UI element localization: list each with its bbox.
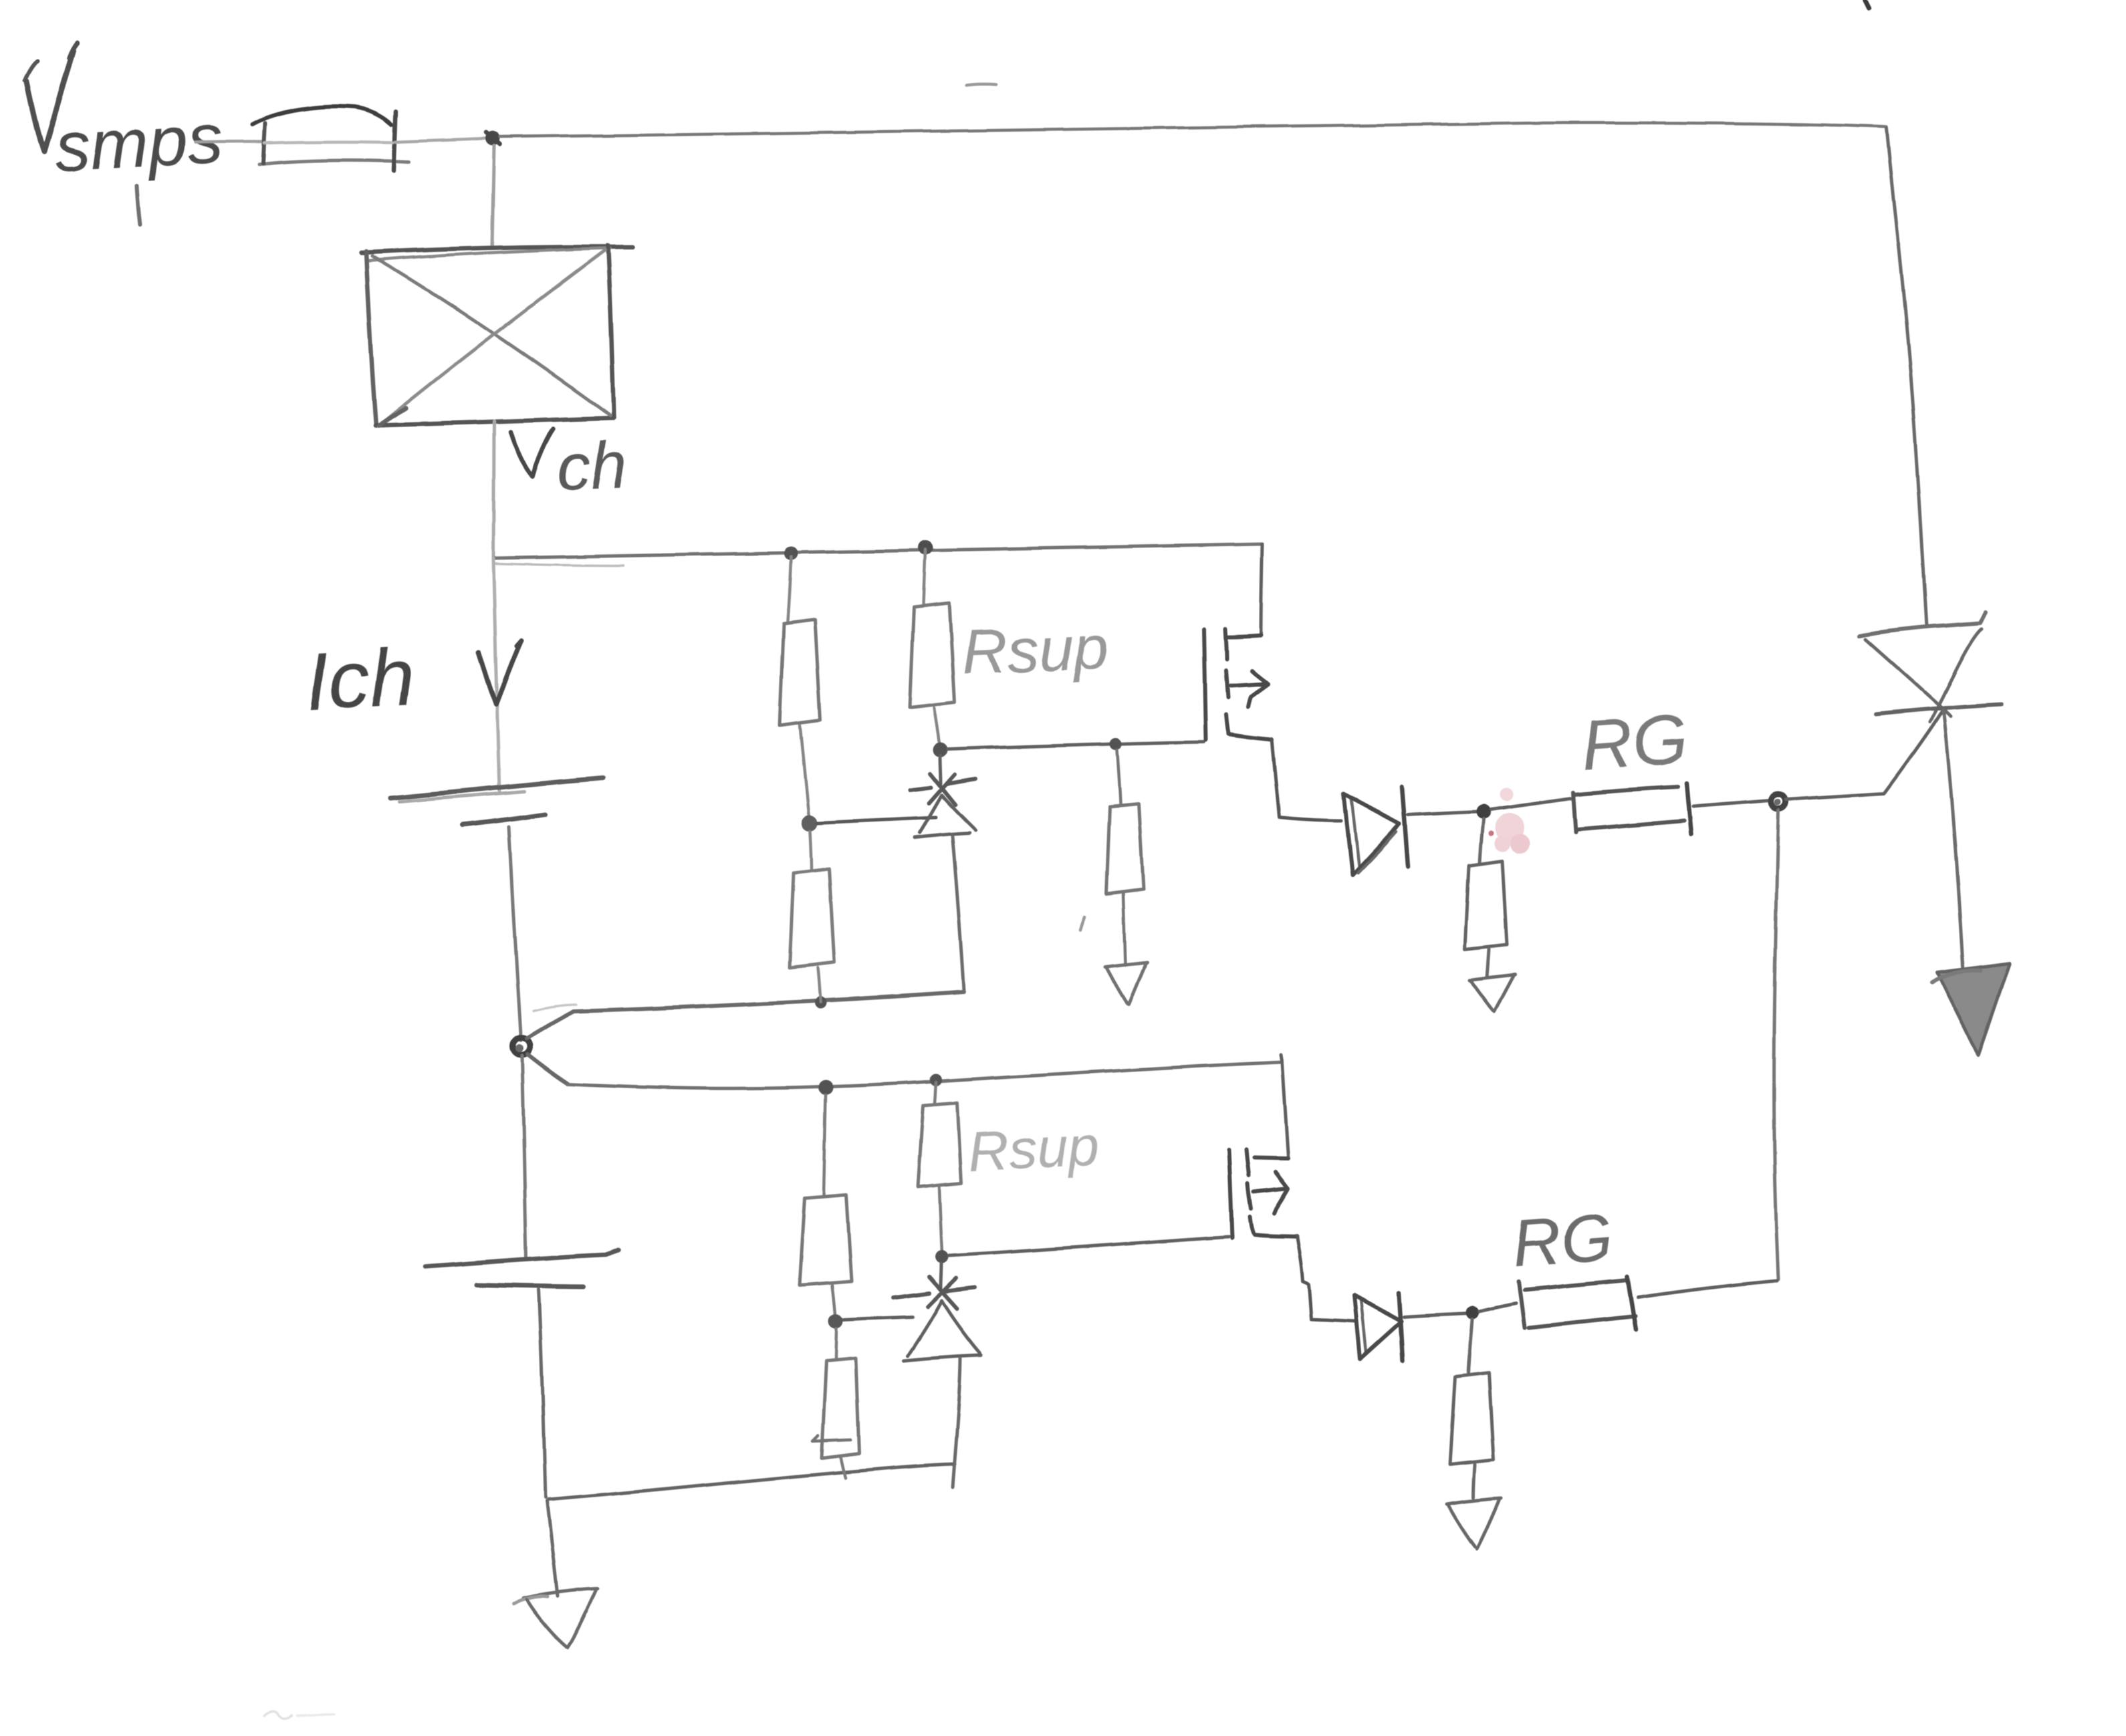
- node B (D1 / R3 / RG1): [1475, 804, 1490, 819]
- ground (below cell1 gate pulldown): [1105, 963, 1147, 1005]
- wire Vsmps to fuse: [195, 142, 262, 142]
- svg-text:Rsup: Rsup: [967, 1114, 1101, 1183]
- fuse F1: [253, 106, 409, 170]
- svg-text:Rsup: Rsup: [961, 612, 1110, 687]
- resistor R2b: [813, 1328, 859, 1477]
- resistor R2a: [800, 1095, 852, 1318]
- resistor RG2: [1480, 1277, 1777, 1330]
- node Rsup2 / zener2 / gate wire: [935, 1250, 949, 1263]
- transistor M2 (MOSFET): [1229, 1150, 1297, 1238]
- node cell1 rail / R1a: [784, 547, 798, 560]
- ground (below R3): [1469, 975, 1515, 1011]
- node Rsup1 / zener1 / gate wire: [933, 743, 947, 757]
- wire rail corner to MOSFET1 drain: [1261, 544, 1262, 635]
- wire charger to cell1 rail: [493, 421, 494, 557]
- wire battery minus to ground: [547, 1501, 558, 1596]
- node battery midpoint: [513, 1037, 530, 1055]
- wire midpoint to cell2 top rail (diagonal): [527, 1054, 568, 1084]
- svg-text:RG: RG: [1510, 1200, 1615, 1281]
- wire top rail: [500, 123, 1887, 137]
- diode D2: [1354, 1293, 1403, 1360]
- stray mark top right corner: [1865, 0, 1869, 8]
- node D (D2 / R4 / RG2): [1466, 1306, 1480, 1320]
- svg-text:Ich: Ich: [304, 631, 417, 727]
- wire cell2 bottom rail: [548, 1464, 955, 1499]
- svg-text:ch: ch: [556, 427, 628, 505]
- node R2a / R2b / zener2: [828, 1314, 843, 1328]
- wire gate (cell1): [947, 742, 1204, 749]
- wire top rail corner down to Q1: [1887, 128, 1927, 627]
- wire cell1 bottom rail: [533, 992, 964, 1011]
- node R1a / zener1 / R1b: [802, 815, 818, 831]
- wire right riser (node C down to RG2): [1774, 810, 1778, 1279]
- resistor R1a: [780, 557, 820, 821]
- node A junction: [485, 131, 500, 146]
- ground (main, below battery): [513, 1589, 598, 1647]
- stray tick near gate wire: [1081, 917, 1085, 931]
- wire fuse to node A: [395, 138, 487, 142]
- node C (RG1 / RG2 riser / Q1 gate): [1771, 794, 1786, 809]
- svg-text:RG: RG: [1578, 699, 1690, 785]
- resistor R3 (pulldown at node B): [1465, 819, 1507, 977]
- diode D1: [1344, 787, 1408, 874]
- wire rail corner down to MOSFET2 drain: [1281, 1055, 1288, 1158]
- wire midpoint to cell1 bottom rail (diagonal): [527, 1011, 574, 1038]
- ground (below R4): [1447, 1498, 1501, 1549]
- battery cell 1: [390, 778, 603, 1040]
- wire node to zener2 anode edge: [844, 1317, 913, 1320]
- resistor R1b: [790, 831, 834, 1002]
- wire cell2 top rail: [568, 1062, 1282, 1088]
- wire node A to charger: [492, 146, 494, 246]
- transistor Q1: [1859, 612, 2002, 967]
- wire M2 source to diode D2: [1297, 1236, 1354, 1322]
- stray faint scribble bottom left: [264, 1711, 334, 1719]
- wire D1 to node B: [1408, 812, 1478, 815]
- resistor Rsup1: [910, 549, 955, 746]
- node cell2 rail / Rsup2: [930, 1074, 942, 1086]
- node gate wire / pulldown: [1110, 738, 1122, 750]
- charger block (box with X): [361, 245, 632, 426]
- ground (below Q1, solid arrow): [1932, 963, 2010, 1055]
- wire gate (cell2): [949, 1237, 1229, 1255]
- wire node C to Q1 gate: [1786, 710, 1943, 799]
- transistor M1 (MOSFET): [1204, 629, 1272, 740]
- wire midpoint to battery cell 2: [522, 1056, 526, 1259]
- battery cell 2: [425, 1250, 618, 1497]
- node cell1 bottom rail / R1b: [814, 997, 826, 1009]
- resistor Rsup2: [917, 1082, 961, 1254]
- stray mark above top rail: [967, 84, 996, 86]
- node cell1 rail / Rsup1: [918, 540, 933, 555]
- pulldown resistor at gate node (cell1): [1106, 750, 1143, 965]
- wire Vch node to battery (Ich arrow): [479, 558, 521, 791]
- wire node to zener1 anode edge: [818, 818, 936, 823]
- pink smudge: [1488, 787, 1530, 854]
- wire D2 to node D: [1404, 1314, 1469, 1317]
- wire cell1 top rail: [493, 544, 1262, 566]
- zener diode Z1: [910, 755, 975, 991]
- node cell2 rail / R2a: [818, 1080, 833, 1095]
- net label Vsmps: [25, 43, 225, 225]
- resistor R4 (pulldown at node D): [1450, 1320, 1494, 1497]
- zener diode Z2: [893, 1263, 981, 1487]
- resistor RG1: [1490, 783, 1770, 834]
- label Vch: [511, 427, 628, 505]
- wire M1 source to diode D1: [1272, 739, 1341, 821]
